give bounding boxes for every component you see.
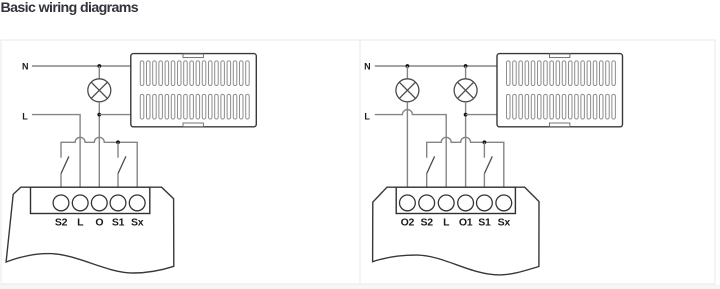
svg-text:S2: S2 [421,217,434,229]
terminal block (left diagram) [31,187,150,213]
svg-text:Sx: Sx [131,217,144,229]
wire: N drop to lamp E2 [406,66,408,79]
wire: SW2 to terminal S1 (left diagram) [117,174,119,187]
wire: lamp E1 to terminal O [98,102,100,187]
terminal S2 (left diagram) [53,195,69,211]
wire: N feed line (left diagram) [32,65,131,67]
wire: switch bus to Sx with bridge hops (left diagram) [61,137,137,187]
wire: SW1 to terminal S2 (left diagram) [60,174,62,187]
wire: SW2 top contact (left diagram) [117,142,119,157]
svg-text:S2: S2 [55,217,68,229]
terminal O (left diagram) [91,195,107,211]
terminal S1 (right diagram) [477,195,493,211]
junction: switch bus at S1 (left diagram) [116,140,120,144]
junction: N to lamp E1 [97,64,101,68]
heater load H2 (right diagram) [497,54,623,127]
heater H2 vent slots row 1 [507,61,616,86]
switch SW4 blade (right diagram) [484,156,492,173]
wire: SW4 top contact (right diagram) [483,142,485,157]
junction: output O1 node (right diagram) [464,113,468,117]
svg-text:L: L [77,217,84,229]
terminal Sx (left diagram) [129,195,145,211]
svg-text:N: N [364,61,371,71]
wire: N feed line (right diagram) [375,65,497,67]
svg-text:O1: O1 [459,217,473,229]
heater H1 vent slots row 2 [140,94,249,119]
wire: switch bus to Sx with bridge hops (right diagram) [427,137,504,187]
wire: L feed with hop over O2, to terminal L (right diagram) [375,110,446,187]
svg-text:Basic wiring diagrams: Basic wiring diagrams [1,0,139,16]
wire: lamp E3 to terminal O1 [465,102,467,187]
terminal S1 (left diagram) [110,195,126,211]
heater load H1 (left diagram) [131,54,256,127]
switch SW2 blade (left diagram) [118,156,126,173]
lamp E1 [88,79,111,102]
svg-text:L: L [443,217,450,229]
wire: SW4 to terminal S1 (right diagram) [483,174,485,187]
terminal O1 (right diagram) [458,195,474,211]
svg-text:Sx: Sx [498,217,511,229]
junction: N to lamp E3 [464,64,468,68]
switch SW1 blade (left diagram) [61,156,69,173]
terminal Sx (right diagram) [496,195,512,211]
relay module enclosure (left diagram) [6,187,174,273]
wire: output O to heater H1 [99,114,131,116]
lamp E3 [454,79,477,102]
svg-text:S1: S1 [478,217,491,229]
wire: SW3 to terminal S2 (right diagram) [426,174,428,187]
relay module enclosure (right diagram) [373,187,539,275]
heater H1 vent slots row 1 [140,61,249,86]
lamp E2 [396,79,419,102]
heater H2 vent slots row 2 [507,94,616,119]
wire: output O1 to heater H2 [466,114,497,116]
terminal O2 (right diagram) [400,195,416,211]
junction: switch bus at S1 (right diagram) [483,140,487,144]
terminal block (right diagram) [396,187,515,213]
junction: N to lamp E2 [406,64,410,68]
wire: L feed to terminal L (left diagram) [32,115,80,187]
junction: output O node (left diagram) [97,113,101,117]
terminal S2 (right diagram) [419,195,435,211]
wire: N drop to lamp E1 [98,66,100,79]
svg-text:N: N [22,61,29,71]
svg-text:L: L [22,111,28,121]
terminal L (left diagram) [72,195,88,211]
terminal L (right diagram) [438,195,454,211]
svg-text:S1: S1 [112,217,125,229]
svg-text:O: O [95,217,103,229]
svg-text:L: L [364,111,370,121]
svg-text:O2: O2 [401,217,415,229]
wire: N drop to lamp E3 [465,66,467,79]
wire: lamp E2 to terminal O2 [406,102,408,187]
switch SW3 blade (right diagram) [427,156,435,173]
